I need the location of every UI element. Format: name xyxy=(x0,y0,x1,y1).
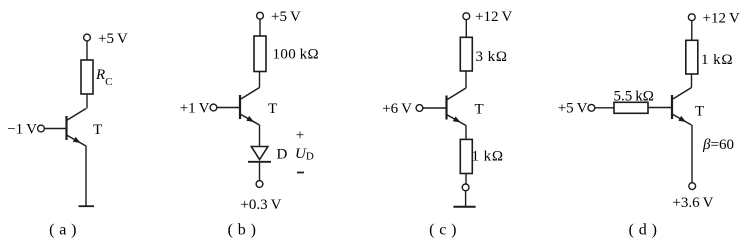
svg-text:5.5 kΩ: 5.5 kΩ xyxy=(614,88,654,104)
base wire (b) xyxy=(217,107,240,109)
wire: Re to terminal (c) xyxy=(465,174,467,185)
svg-text:+0.3 V: +0.3 V xyxy=(240,197,281,213)
base wire: Rb to base (d) xyxy=(648,107,672,109)
svg-text:3 kΩ: 3 kΩ xyxy=(476,49,508,65)
label - of UD (b) xyxy=(297,172,304,174)
wire: emitter to diode (b) xyxy=(259,125,261,147)
svg-text:T: T xyxy=(695,104,704,120)
input terminal -1 V (a) xyxy=(38,125,45,132)
svg-text:T: T xyxy=(475,102,484,118)
wire: diode to terminal (b) xyxy=(259,162,261,181)
transistor T (a) xyxy=(67,109,87,147)
transistor T (b) xyxy=(240,88,260,126)
resistor 1k (d) xyxy=(686,40,698,74)
resistor 5.5k horizontal (d) xyxy=(614,102,648,113)
terminal (c) xyxy=(462,184,469,191)
svg-text:+1 V: +1 V xyxy=(180,101,210,117)
svg-text:( a ): ( a ) xyxy=(49,222,77,239)
wire: emitter down (a) xyxy=(85,146,87,206)
svg-text:T: T xyxy=(268,101,277,117)
svg-text:+5 V: +5 V xyxy=(98,31,128,47)
svg-text:1 kΩ: 1 kΩ xyxy=(472,149,504,165)
base wire (a) xyxy=(44,128,66,130)
diode D (b) xyxy=(248,147,271,162)
wire: resistor to collector elbow (d) xyxy=(691,74,693,88)
wire: terminal to Rb (d) xyxy=(595,107,614,109)
base wire (c) xyxy=(423,107,447,109)
svg-text:β=60: β=60 xyxy=(702,137,734,153)
wire: RC to collector elbow (a) xyxy=(86,94,88,109)
wire: +5V terminal to Rb (b) xyxy=(259,19,261,36)
transistor T (c) xyxy=(447,88,467,126)
circuit (c): terminal +12 V xyxy=(463,13,470,20)
circuit (a): terminal +5 V xyxy=(84,34,91,41)
wire: +5V terminal to RC (a) xyxy=(86,41,88,60)
wire: +12V terminal to Rc (c) xyxy=(465,20,467,38)
svg-text:+3.6 V: +3.6 V xyxy=(672,195,713,211)
svg-text:+12 V: +12 V xyxy=(475,9,512,25)
wire: terminal to ground (c) xyxy=(465,191,467,207)
svg-text:+6 V: +6 V xyxy=(382,101,412,117)
wire: +12V terminal to Rc (d) xyxy=(691,21,693,41)
circuit (b): terminal +5 V xyxy=(257,12,264,19)
svg-text:+: + xyxy=(296,128,304,144)
resistor 100k (b) xyxy=(254,36,266,72)
svg-text:T: T xyxy=(93,122,102,138)
svg-text:100 kΩ: 100 kΩ xyxy=(273,47,320,63)
input terminal +6 V (c) xyxy=(416,105,423,112)
resistor 3k (c) xyxy=(460,37,472,71)
wire: resistor to collector elbow (c) xyxy=(465,71,467,88)
svg-text:( b ): ( b ) xyxy=(228,222,257,239)
terminal +3.6 V (d) xyxy=(689,183,696,190)
svg-text:( d ): ( d ) xyxy=(629,222,658,239)
svg-text:1 kΩ: 1 kΩ xyxy=(701,52,733,68)
input terminal +1 V (b) xyxy=(210,104,217,111)
resistor RC (a) xyxy=(81,60,93,94)
resistor 1k (c) xyxy=(460,139,472,173)
svg-text:+12 V: +12 V xyxy=(703,11,740,27)
svg-text:( c ): ( c ) xyxy=(429,222,457,239)
wire: emitter to Re (c) xyxy=(465,126,467,140)
svg-text:−1 V: −1 V xyxy=(7,122,37,138)
wire: emitter down (d) xyxy=(691,125,693,183)
terminal +0.3 V (b) xyxy=(256,181,263,188)
wire: resistor to collector elbow (b) xyxy=(259,72,261,88)
ground bar (c) xyxy=(453,206,475,208)
svg-text:+5 V: +5 V xyxy=(271,9,301,25)
input terminal +5 V (d) xyxy=(588,104,595,111)
circuit (d): terminal +12 V xyxy=(688,14,695,21)
svg-text:D: D xyxy=(277,147,288,163)
transistor T (d) xyxy=(672,88,692,126)
ground bar (a) xyxy=(79,205,95,207)
svg-text:+5 V: +5 V xyxy=(558,101,588,117)
